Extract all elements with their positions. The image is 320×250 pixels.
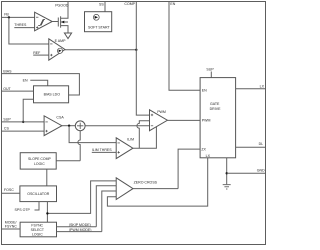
block FSYNC SELECT LOGIC: [20, 222, 56, 237]
svg-text:CS: CS: [4, 127, 10, 131]
wire zero cross input B from skip mode: [96, 186, 116, 227]
wire ILIM output: [133, 127, 157, 149]
wire slope comp to summer (hop over csa wire): [56, 131, 80, 161]
wire ILIM THRES to ILIM: [92, 151, 116, 153]
op-amp E AMP: [49, 39, 66, 60]
wire LX down from gate drive: [107, 158, 207, 206]
wire slope comp to oscillator: [46, 169, 48, 186]
wire GND from gate drive: [226, 158, 228, 185]
wire BIAS LDO supply from SUP: [23, 99, 33, 122]
svg-text:SLOPE COMP: SLOPE COMP: [28, 157, 51, 161]
wire MODE/FSYNC to fsync select: [2, 228, 21, 230]
drain stub: [61, 2, 68, 19]
wire EN to BIAS LDO: [30, 80, 47, 86]
body arrow: [61, 21, 65, 23]
gate bar: [57, 18, 59, 27]
svg-text:EN: EN: [170, 2, 175, 6]
svg-text:GATE: GATE: [210, 102, 220, 106]
svg-text:E AMP: E AMP: [55, 39, 66, 43]
schmitt hysteresis symbol: [38, 20, 45, 26]
wire summer output to PWM minus: [85, 125, 149, 127]
wire COMP vertical to PWM +: [136, 2, 149, 116]
current source circle inside E AMP: [57, 48, 62, 53]
wire FB down to E AMP: [9, 17, 49, 44]
svg-text:LOGIC: LOGIC: [34, 162, 45, 166]
block GATE DRIVE: [200, 78, 236, 159]
svg-text:OSCILLATOR: OSCILLATOR: [27, 192, 50, 196]
wire skip mode output: [57, 226, 97, 228]
svg-text:DL: DL: [259, 142, 264, 146]
svg-text:PWM: PWM: [202, 119, 211, 123]
wire EN to gate drive: [169, 2, 200, 91]
ground triangle (PGOOD source): [64, 33, 71, 39]
svg-text:ZERO CROSS: ZERO CROSS: [134, 181, 158, 185]
ground symbol (signal gnd bars): [223, 185, 231, 189]
wire FB to comparator: [2, 16, 35, 18]
comparator ZERO CROSS: [116, 178, 157, 200]
node oscillator junction: [46, 212, 48, 214]
wire CSA output to summer: [62, 125, 75, 127]
block SLOPE COMP LOGIC: [20, 153, 56, 169]
wire REF to E AMP: [33, 54, 49, 56]
wire OUT to BIAS LDO: [2, 90, 34, 92]
wire pwm mode output: [57, 231, 102, 233]
wire PWM output to gate drive: [167, 119, 200, 121]
svg-text:BIAS LDO: BIAS LDO: [44, 93, 61, 97]
svg-text:REF: REF: [33, 51, 41, 55]
wire FOSC to oscillator: [2, 192, 20, 194]
svg-text:PGOOD: PGOOD: [55, 4, 69, 8]
wire GND to pin: [227, 172, 266, 174]
svg-text:LX: LX: [206, 154, 211, 158]
node COMP junction: [135, 49, 137, 51]
transistor M1 PGOOD open-drain: [58, 2, 68, 34]
wire ILIM branch to PWM (hop over summer wire): [137, 121, 150, 149]
wire CSA node to ILIM minus: [69, 126, 116, 143]
wire zero cross input C from pwm mode: [102, 191, 116, 232]
node CSA output junction: [68, 125, 70, 127]
svg-text:FSYNC: FSYNC: [31, 224, 43, 228]
svg-text:ILIM: ILIM: [127, 138, 134, 142]
svg-text:EN: EN: [202, 88, 207, 92]
wire SUP to CSA: [2, 121, 45, 123]
svg-text:COMP: COMP: [124, 2, 135, 6]
wire comparator to MOSFET gate: [52, 21, 58, 23]
wire E AMP output to COMP node: [65, 49, 136, 51]
wire CS to CSA: [2, 130, 45, 132]
wire SPS OTP to oscillator: [35, 202, 40, 210]
svg-text:LX: LX: [260, 84, 265, 88]
node GND junction: [226, 172, 228, 174]
svg-text:GND: GND: [257, 169, 265, 173]
wire SUP stub: [210, 72, 212, 78]
svg-text:CSA: CSA: [56, 116, 64, 120]
svg-text:SUP: SUP: [206, 67, 214, 71]
svg-text:PWM: PWM: [157, 110, 166, 114]
svg-text:EN: EN: [23, 78, 28, 82]
svg-text:FB: FB: [4, 13, 9, 17]
wire zero cross output: [133, 188, 178, 190]
svg-text:ILIM THRES: ILIM THRES: [92, 148, 112, 152]
svg-text:SELECT: SELECT: [31, 228, 45, 232]
block OSCILLATOR: [20, 186, 57, 202]
svg-text:DRIVE: DRIVE: [210, 107, 221, 111]
svg-text:ZX: ZX: [201, 147, 206, 151]
comparator U1 PGOOD (schmitt): [35, 12, 53, 31]
wire oscillator to fsync select: [46, 202, 48, 223]
wire gate drive to LX pin: [236, 88, 266, 90]
wire gate drive to DL pin: [236, 146, 266, 148]
svg-text:BIAS: BIAS: [3, 69, 12, 73]
node SUP junction: [22, 121, 24, 123]
source stub: [61, 26, 68, 33]
wire ZX from zero cross: [178, 149, 200, 189]
svg-text:FSYNC: FSYNC: [5, 225, 17, 229]
wire BIAS from LDO output: [2, 74, 80, 95]
op-amp CSA: [44, 116, 64, 136]
current source circle: [93, 14, 99, 20]
svg-text:FOSC: FOSC: [4, 188, 14, 192]
comparator ILIM: [116, 138, 134, 159]
svg-text:SUP: SUP: [3, 117, 11, 121]
pin FB: [2, 13, 49, 44]
wire SS pin down into soft start: [99, 2, 105, 18]
wire THRES to comparator: [14, 27, 34, 29]
svg-text:SPS OTP: SPS OTP: [15, 208, 31, 212]
summer S1: [75, 121, 85, 131]
node FB junction: [8, 16, 10, 18]
svg-text:SS: SS: [99, 3, 104, 7]
comparator PWM: [150, 110, 168, 131]
svg-text:LOGIC: LOGIC: [32, 232, 43, 236]
svg-text:THRES: THRES: [14, 23, 27, 27]
soft start block: [85, 12, 112, 32]
svg-text:SOFT START: SOFT START: [88, 25, 111, 29]
block BIAS LDO: [34, 86, 69, 103]
channel bar: [60, 16, 62, 27]
wire zero cross input A from oscillator node: [47, 181, 116, 214]
